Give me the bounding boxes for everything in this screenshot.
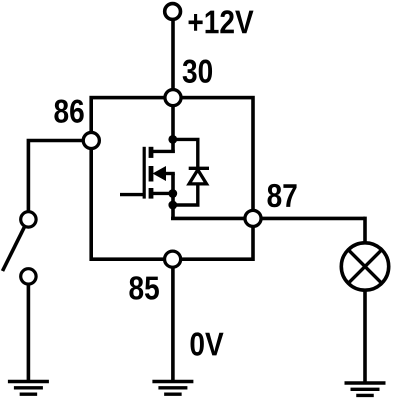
wire node 87 run <box>171 217 365 221</box>
wire +12V feed (terminal to drain junction) <box>171 14 175 153</box>
relay box outline <box>91 98 253 260</box>
wire 86 to switch <box>28 141 91 214</box>
label 87 <box>267 184 296 207</box>
MOSFET channel segment source <box>149 188 154 199</box>
ground (terminal 85) <box>152 382 193 395</box>
node 87 <box>245 210 261 226</box>
MOSFET body arrow <box>153 166 167 181</box>
junction drain dot <box>168 135 177 144</box>
lamp body <box>341 243 388 290</box>
MOSFET gate line <box>143 147 146 199</box>
label 0V <box>191 332 224 355</box>
switch top contact <box>21 212 36 227</box>
lamp L1 <box>341 243 388 290</box>
lamp cross stroke 1 <box>348 250 382 284</box>
wire source junction to node 87 <box>171 174 175 219</box>
diode top lead <box>173 139 198 168</box>
node 30 <box>165 90 181 106</box>
switch blade <box>3 227 25 271</box>
diode bottom lead <box>173 185 198 206</box>
label 85 <box>129 276 159 299</box>
wire 87 to lamp <box>363 217 367 244</box>
MOSFET Q1 <box>120 147 175 199</box>
diode triangle <box>189 170 206 184</box>
MOSFET source lead <box>151 192 173 195</box>
diode D1 <box>173 139 209 205</box>
terminal +12V <box>165 4 181 20</box>
MOSFET gate lead <box>120 193 144 196</box>
wire switch to ground <box>27 283 31 382</box>
junction source dot <box>168 189 177 198</box>
label 30 <box>183 60 212 83</box>
wire 85 to ground <box>171 259 175 382</box>
ground (lamp) <box>345 383 386 395</box>
junction diode anode dot <box>168 201 177 210</box>
label +12V <box>189 10 254 33</box>
MOSFET channel segment drain <box>149 147 154 158</box>
node 85 <box>165 251 181 267</box>
label 86 <box>54 99 83 122</box>
switch bottom contact <box>21 269 36 284</box>
node 86 <box>83 132 99 148</box>
switch S1 <box>3 212 37 284</box>
MOSFET body lead <box>163 172 175 175</box>
MOSFET drain lead <box>151 150 175 153</box>
ground (switch) <box>8 382 49 395</box>
wire lamp to ground <box>363 289 367 383</box>
lamp cross stroke 2 <box>348 250 382 284</box>
diode cathode bar <box>189 167 209 170</box>
MOSFET channel segment body <box>149 166 154 182</box>
